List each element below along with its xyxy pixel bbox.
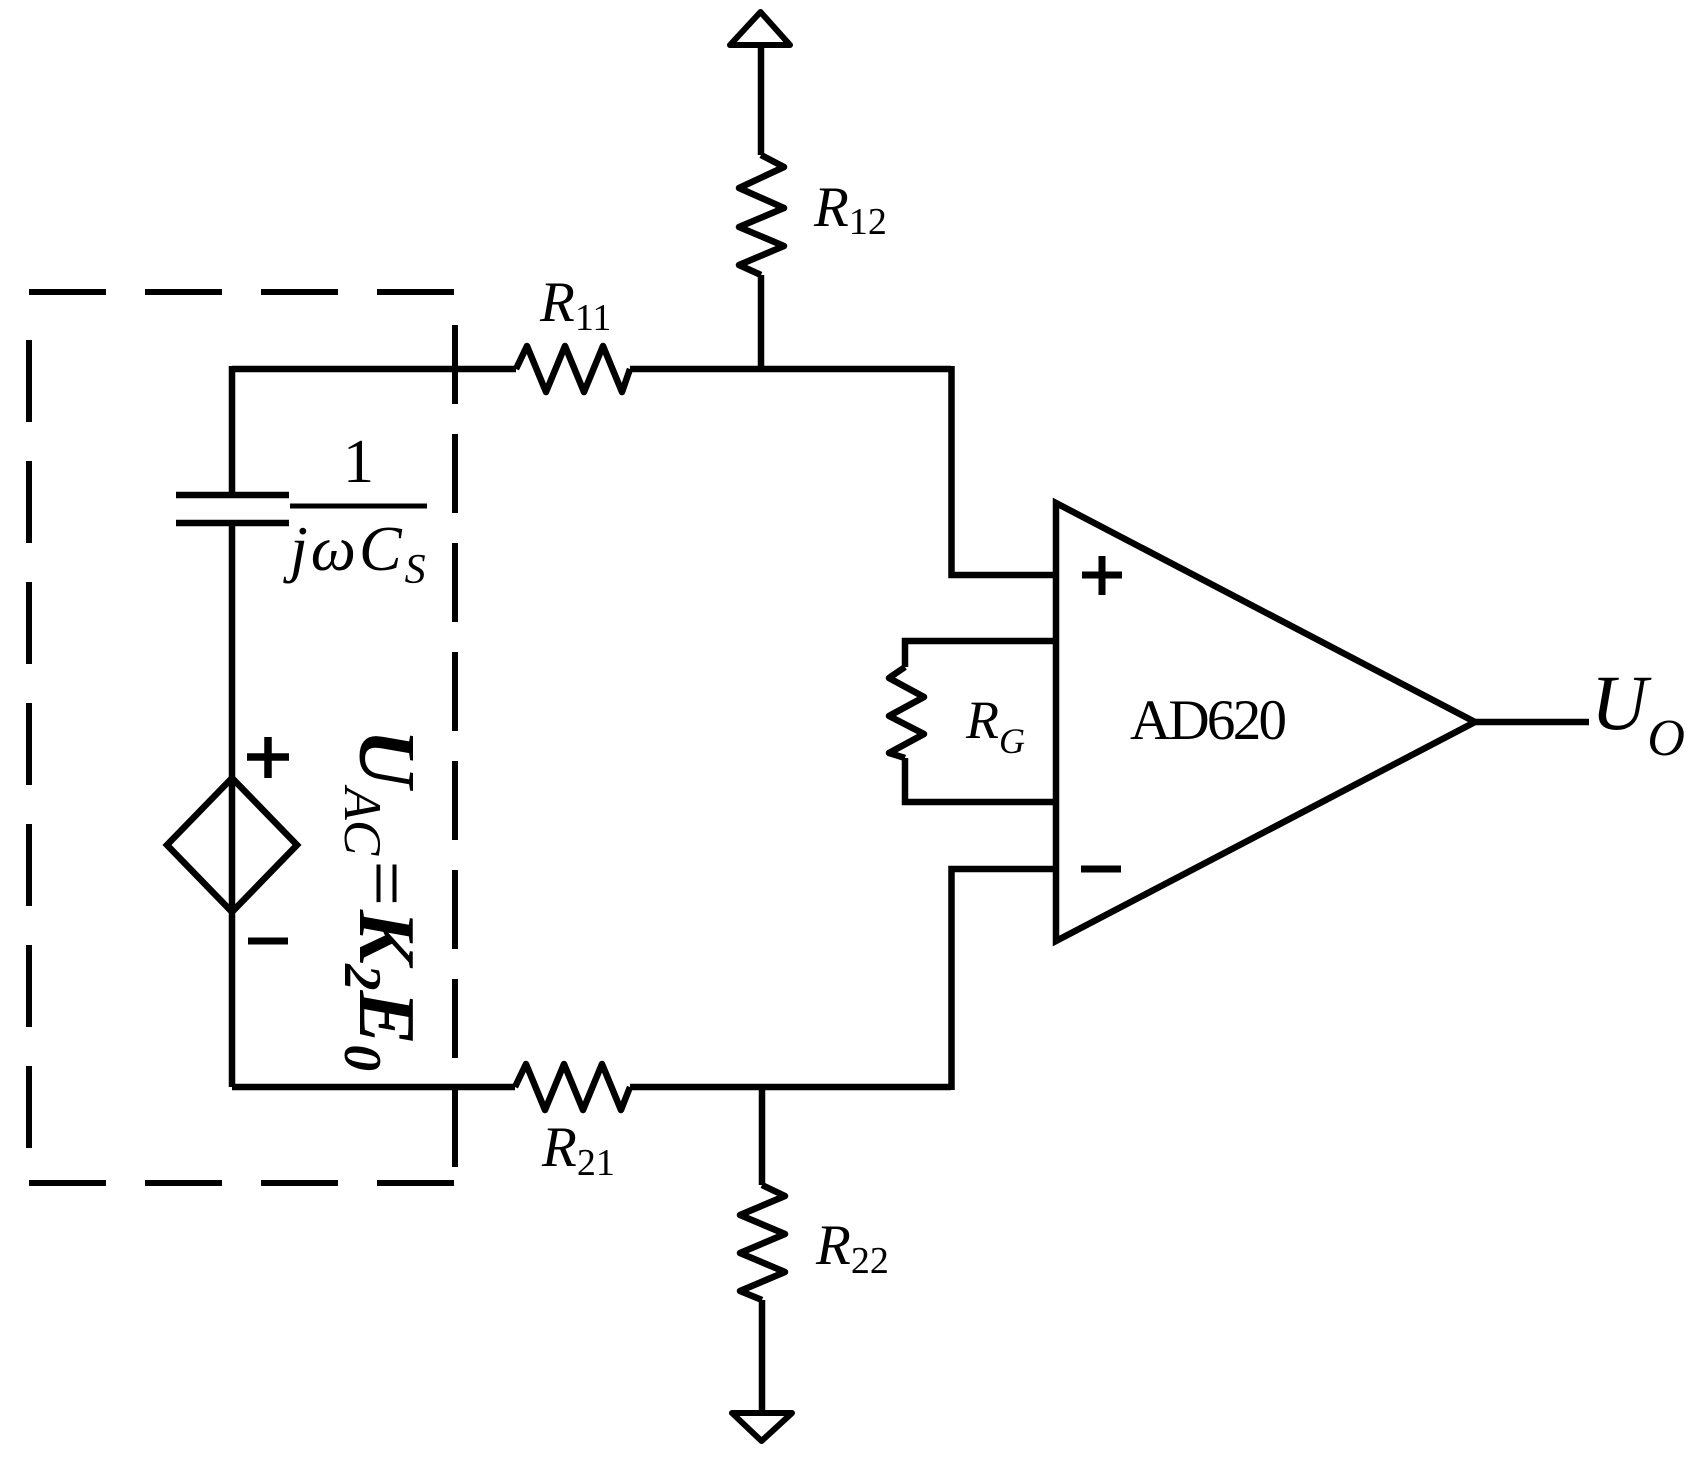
wire: diamond to bottom rail <box>229 912 236 1087</box>
resistor R22 <box>740 1185 785 1300</box>
svg-text:AD620: AD620 <box>1130 689 1287 752</box>
wire: node B up to op-amp -input pin 2 <box>952 869 1057 1090</box>
+ polarity mark <box>247 737 289 778</box>
wire: source bottom terminal to R21 <box>232 1084 515 1091</box>
+ input mark <box>1082 556 1122 595</box>
op-amp U1 AD620 <box>1056 503 1475 941</box>
resistor R21 <box>515 1064 630 1110</box>
power arrow V+ <box>730 12 790 45</box>
wire through diamond <box>229 778 236 912</box>
svg-text:1: 1 <box>343 428 374 496</box>
wire: bottom node to R22 <box>759 1087 766 1185</box>
wire: RG top lead from op-amp pin 1 <box>905 641 1056 667</box>
output wire <box>1475 719 1589 726</box>
resistor RG <box>889 667 924 758</box>
svg-text:UAC=K2E0: UAC=K2E0 <box>333 729 432 1071</box>
wire: R12 to top rail node <box>758 275 765 372</box>
wire: R21 to node B (R22 junction) <box>630 1084 762 1091</box>
power arrow V- <box>732 1413 792 1441</box>
wire: capacitor to source diamond <box>229 524 236 778</box>
node A: junction of R11, R12 and +input wire <box>763 366 951 373</box>
- input mark <box>1081 866 1121 873</box>
node B: junction of R21, R22 and -input wire <box>762 1084 951 1091</box>
dashed box (sensor enclosure) <box>29 292 455 1183</box>
resistor R12 <box>739 155 784 275</box>
wire: source top terminal to R11 <box>232 366 516 373</box>
wire: R11 to node A (R12 junction) <box>630 366 763 373</box>
resistor R11 <box>516 346 630 392</box>
dependent source diamond <box>167 778 297 912</box>
wire: node A down to op-amp +input pin 3 <box>952 366 1057 575</box>
wire: R22 to V- arrow <box>759 1300 766 1413</box>
wire: left source branch vertical (top) <box>229 366 236 494</box>
capacitor Cs (1/jwCs) <box>176 492 289 499</box>
wire: arrow to R12 <box>758 45 765 155</box>
wire: RG bottom lead to op-amp pin 8 <box>905 758 1056 802</box>
- polarity mark <box>248 938 288 945</box>
